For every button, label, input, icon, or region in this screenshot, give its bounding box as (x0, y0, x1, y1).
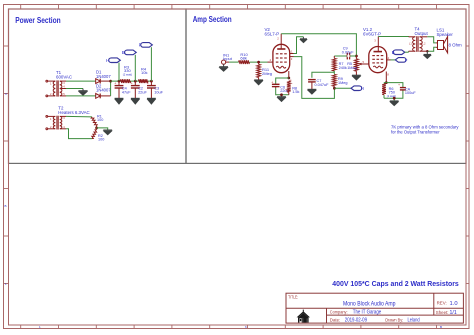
V2 grid pin (268, 61, 274, 63)
logo house icon (297, 310, 310, 323)
ground (V1.2 cathode) (390, 101, 399, 106)
svg-text:for the Output Transformer: for the Output Transformer (391, 130, 440, 136)
wire screen to flag F (391, 59, 396, 61)
svg-text:Date:: Date: (330, 317, 341, 322)
node T4 secondary bottom (426, 50, 428, 52)
input connector IN1 (222, 60, 226, 64)
wire V1.2 plate to T4 (378, 36, 408, 38)
wire up to flag H (118, 63, 120, 82)
wire T2 top to R1 (66, 115, 92, 118)
wire R10 to grid (250, 61, 268, 63)
wire T1 center tap (66, 88, 83, 90)
resistor R9 1Meg (332, 74, 336, 86)
wire R7 to C7 stub (312, 71, 334, 78)
wire V2 pin3 down to bottom loop (294, 57, 335, 99)
svg-text:Drawn By:: Drawn By: (385, 317, 403, 322)
net flag F (141, 43, 153, 48)
svg-text:H: H (106, 58, 109, 63)
svg-text:+: + (114, 82, 116, 86)
resistor R4 10k (139, 79, 149, 83)
speaker LS1 (436, 37, 448, 53)
capacitor C3 10uF (147, 81, 156, 98)
V1.2 cathode network R6 / CA (385, 81, 388, 84)
wire input to R10 (229, 61, 239, 63)
node C4 (118, 80, 121, 83)
wire V2 plate line (281, 34, 356, 56)
svg-text:+: + (147, 82, 149, 86)
svg-text:2Meg: 2Meg (262, 71, 272, 76)
svg-text:F: F (405, 58, 408, 63)
diode D2 1N4007 (96, 94, 111, 99)
net flag B (to T4) (393, 50, 405, 55)
svg-text:H: H (361, 86, 364, 91)
svg-text:Sheet:: Sheet: (436, 310, 449, 315)
svg-text:F: F (139, 43, 142, 48)
ground (C4) (115, 98, 124, 104)
node R9 bottom (333, 87, 336, 90)
ground (R5) (352, 75, 361, 80)
wire to flag H (334, 87, 351, 89)
svg-text:Heaters 6.3VAC: Heaters 6.3VAC (58, 110, 89, 115)
net flag H (109, 58, 121, 63)
node N1 (355, 55, 358, 58)
node R1/R2 junction (95, 127, 98, 130)
V2 cathode network C6 / R8 (287, 77, 290, 80)
ground (C3) (147, 98, 156, 104)
svg-text:The IT Garage: The IT Garage (353, 310, 381, 316)
resistor R11 2Meg (257, 64, 261, 77)
transformer T2 (46, 116, 66, 130)
svg-text:22uF: 22uF (138, 90, 147, 94)
svg-text:Speaker: Speaker (437, 32, 454, 37)
resistor R3 330 (120, 79, 130, 83)
node cathode ground (280, 93, 283, 96)
svg-text:Mono Block Audio Amp: Mono Block Audio Amp (343, 300, 396, 307)
svg-text:Leland: Leland (408, 318, 420, 324)
resistor R10 68k (239, 60, 250, 64)
ground (T1 center tap) (78, 89, 87, 96)
ground (V2 pin1) (300, 37, 307, 43)
tube V2 6SL7-P (273, 44, 290, 72)
svg-text:Power Section: Power Section (15, 15, 61, 25)
wire C9 run (334, 55, 356, 57)
wire T1 secondary top to D1 (66, 80, 96, 82)
svg-text:B: B (440, 325, 442, 329)
svg-text:B: B (392, 50, 395, 55)
svg-text:6V6GT-P: 6V6GT-P (363, 32, 381, 37)
ground (R11) (254, 80, 263, 85)
resistor R1 100 (91, 117, 97, 126)
svg-text:240k: 240k (339, 66, 347, 70)
svg-text:1.0: 1.0 (450, 301, 458, 307)
wire up to flag F (150, 47, 152, 81)
capacitor C2 22uF (131, 81, 140, 98)
svg-text:Amp Section: Amp Section (193, 15, 232, 24)
capacitor C6 22uF (272, 84, 280, 88)
wire T4 secondary to speaker (427, 37, 436, 43)
capacitor C7 0.047uF (308, 80, 316, 90)
resistor R6 750 (382, 84, 386, 95)
wire up to flag B (134, 55, 136, 81)
wire cathode box (384, 83, 403, 101)
svg-text:10k: 10k (141, 70, 147, 75)
svg-text:100uF: 100uF (405, 91, 416, 95)
node grid junction (257, 61, 260, 64)
resistor R7 240k (332, 58, 336, 71)
capacitor C4 47uF (115, 81, 124, 98)
wire to heater ground (97, 128, 108, 130)
svg-text:+: + (271, 80, 273, 84)
svg-text:Input: Input (223, 56, 233, 61)
section box: Power Section (9, 9, 187, 163)
svg-text:1Meg: 1Meg (347, 66, 357, 70)
resistor R8 1.5k (287, 81, 291, 93)
node cathode ground (393, 97, 396, 100)
svg-text:600VAC: 600VAC (56, 74, 72, 79)
resistor R2 100 (92, 130, 97, 139)
ground (C2) (131, 98, 140, 104)
svg-text:TITLE:: TITLE: (288, 294, 298, 299)
svg-text:1.5k: 1.5k (292, 90, 299, 94)
svg-text:Output: Output (415, 31, 429, 36)
svg-text:47uF: 47uF (122, 90, 131, 94)
wire V2 pin1 to ground (294, 37, 304, 54)
diode D1 1N4007 (96, 79, 111, 84)
wire T2 bottom to R2 (66, 129, 92, 139)
resistor R5 1Meg (355, 59, 359, 71)
ground (heater center) (103, 130, 112, 135)
wire cathode box (276, 78, 289, 97)
wire rectifier join (110, 81, 112, 96)
ground (T4 secondary) (424, 51, 432, 58)
svg-text:10uF: 10uF (154, 90, 163, 94)
node C2 (134, 80, 137, 83)
svg-text:0.047uF: 0.047uF (315, 83, 330, 87)
net flag F (screen) (395, 58, 406, 63)
transformer T1 (46, 80, 66, 97)
capacitor C9 0.02uF (347, 53, 349, 60)
svg-text:Company:: Company: (330, 310, 348, 315)
svg-text:1/1: 1/1 (450, 310, 457, 316)
svg-text:B: B (122, 50, 125, 55)
net flag B (125, 50, 137, 55)
ground (V2 cathode) (277, 97, 286, 102)
capacitor CA 100uF (400, 88, 406, 90)
svg-text:100: 100 (97, 118, 103, 122)
V1.2 grid pin (358, 63, 370, 66)
svg-text:B: B (5, 204, 7, 208)
svg-text:+: + (398, 83, 400, 87)
svg-text:8 Ohm: 8 Ohm (449, 43, 463, 48)
svg-text:+: + (131, 82, 133, 86)
svg-text:1N4007: 1N4007 (96, 74, 111, 79)
wire B+ bus (111, 80, 152, 82)
transformer T4 Output (409, 36, 428, 52)
net flag H (feedback) (351, 86, 362, 91)
node J1 (109, 80, 112, 83)
svg-text:400V 105*C Caps and 2 Watt Res: 400V 105*C Caps and 2 Watt Resistors (332, 279, 459, 288)
svg-text:100: 100 (98, 138, 104, 142)
svg-text:2019-02-09: 2019-02-09 (345, 318, 367, 324)
wire T1 secondary bottom to D2 (66, 95, 96, 97)
title block (286, 293, 463, 323)
tube V1.2 6V6GT-P (369, 47, 387, 73)
svg-text:7K primary with a 8 Ohm second: 7K primary with a 8 Ohm secondary (391, 124, 459, 130)
ground (input) (219, 64, 228, 71)
wire flag B to T4 primary bottom (405, 51, 409, 53)
ground (C7) (308, 89, 317, 94)
svg-text:REV:: REV: (437, 300, 447, 305)
svg-text:1Meg: 1Meg (338, 81, 348, 85)
svg-text:1N4007: 1N4007 (96, 88, 111, 93)
svg-text:0.02uF: 0.02uF (342, 50, 355, 54)
node C3 (150, 80, 153, 83)
svg-text:68k: 68k (240, 56, 246, 61)
svg-text:(2 watt): (2 watt) (123, 72, 132, 76)
section box: Amp Section (186, 9, 466, 163)
